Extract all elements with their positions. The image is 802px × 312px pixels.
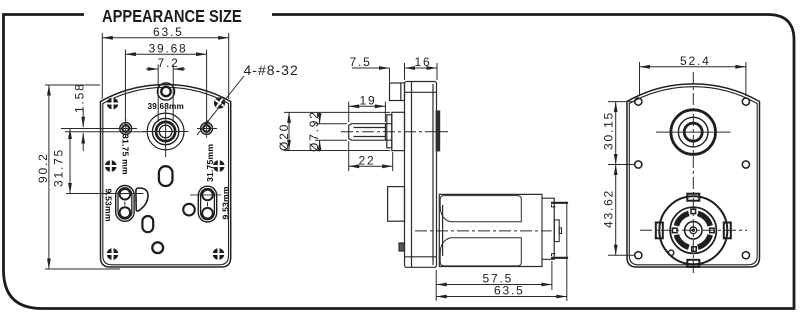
dimension 7.2 front [146,65,185,123]
left hole crosshair [116,119,137,138]
svg-text:Ø20: Ø20 [277,123,291,151]
back motor tab bottom [687,260,699,267]
back motor small hole [668,250,673,255]
svg-text:22: 22 [359,154,376,168]
main output shaft circles [147,113,184,150]
svg-text:APPEARANCE SIZE: APPEARANCE SIZE [102,7,242,26]
back top bearing circles [671,110,716,155]
dimension D20 side [284,112,390,150]
svg-text:52.4: 52.4 [680,54,711,68]
lower small oval cutout [142,216,153,232]
dimension 30.15 back [608,102,634,165]
svg-text:31.75: 31.75 [52,148,66,187]
svg-text:63.5: 63.5 [494,284,525,298]
back motor tab top [687,194,699,201]
screw mid-right [213,160,225,172]
shaft boss (D20) side [387,112,405,150]
label 4-#8-32 with leader [244,62,299,78]
main circle crosshair [143,109,189,158]
screw bottom-right [213,248,225,260]
motor centerline [415,230,552,232]
back motor center circles [685,222,702,239]
slot boss side [388,187,405,222]
svg-text:39.68: 39.68 [149,42,188,56]
dimension 19 side [349,102,386,123]
dimension 31.75 front left [66,129,144,194]
dimension D7.92 side [315,113,347,152]
svg-text:43.62: 43.62 [602,189,616,228]
dimension 63.5 front top [102,33,228,99]
svg-text:7.5: 7.5 [350,55,372,69]
svg-text:31.75 mm: 31.75 mm [121,134,131,175]
shaft centerline [341,131,437,133]
small circle bottom center [152,242,163,253]
dimension 22 side [349,141,393,171]
motor rear hub [554,220,561,242]
dimension 90.2 front left [45,85,120,269]
back hole bottom-right [742,252,749,259]
back hole bottom-left [635,252,642,259]
back hole top-left [635,98,642,105]
label 39.68mm [148,102,184,111]
right hole crosshair [197,119,217,138]
screw mid-left [105,160,117,172]
svg-text:4-#8-32: 4-#8-32 [244,62,299,78]
motor label rect bottom [440,238,521,266]
gearbox body side [405,82,437,268]
center oval cutout [159,166,173,186]
dimension 57.5 side bottom [436,261,552,301]
dimension 63.5 side bottom [436,204,567,302]
label 9.53mm left (rotated down) [104,189,114,222]
top boss side [390,83,405,101]
rear bearing boss dark bar on gearbox right [436,110,448,151]
back motor crosshair [640,229,747,231]
back motor spokes [676,213,710,247]
dimension 52.4 back [640,62,746,96]
left slot center dash [124,202,126,206]
motor terminal bottom [551,254,568,258]
svg-text:16: 16 [415,55,432,69]
front plate inner outline [103,87,229,265]
screw top-left [107,98,119,110]
output shaft side [349,124,392,141]
svg-text:7.2: 7.2 [158,56,180,70]
screw bottom-left [107,248,119,260]
back motor pole marks [673,209,715,251]
back hole mid-right [742,161,749,168]
right slot crosshair [190,194,221,196]
back plate outer outline [627,84,760,267]
medium circle right of center [183,204,195,216]
front plate outer outline [101,84,231,267]
dimension 7.5 side [352,63,405,82]
back hole top-right [742,98,749,105]
svg-text:30.15: 30.15 [602,111,616,150]
label 9.53mm right (rotated up) [221,186,231,219]
right slot [198,186,216,222]
screw top-right [212,96,227,111]
back motor tab right [724,223,731,239]
motor label rect top [440,196,521,222]
svg-text:63.5: 63.5 [153,25,184,39]
back plate inner outline [629,87,757,265]
title APPEARANCE SIZE [102,7,242,26]
svg-text:1.58: 1.58 [73,82,87,113]
right slot center dash [207,202,209,206]
teardrop cutout [136,188,148,211]
dimension 1.58 front left [61,109,146,151]
dimension 39.68 front [125,50,206,122]
left slot [116,186,134,222]
svg-text:31.75mm: 31.75mm [205,144,215,182]
svg-text:90.2: 90.2 [36,152,50,183]
label 31.75mm right (rotated up) [205,144,215,182]
svg-text:19: 19 [360,94,377,108]
left mount hole [120,123,132,135]
dimension 16 side [405,63,438,80]
motor can side [439,194,554,266]
back motor tab left [656,223,663,239]
right mount hole [201,123,213,135]
back top circle crosshair [656,131,731,133]
back vertical centerline [692,72,694,276]
label 31.75 mm left (rotated down) [121,134,131,175]
svg-text:Ø7.92: Ø7.92 [307,110,321,152]
dimension 43.62 back [608,165,634,256]
motor rear cap joint [541,198,543,259]
svg-text:9.53mm: 9.53mm [221,186,231,219]
svg-text:39.68mm: 39.68mm [148,102,184,111]
small nub side [399,243,405,251]
top idler circle [157,83,174,100]
back hole mid-left [635,161,642,168]
back motor circle [659,196,727,264]
motor terminal top [551,203,568,207]
